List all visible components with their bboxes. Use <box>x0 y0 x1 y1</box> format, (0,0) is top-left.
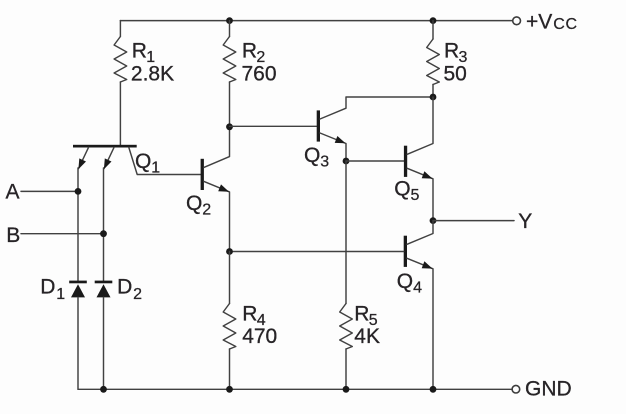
label A <box>6 181 20 204</box>
node R4-GND <box>226 386 233 393</box>
resistor R3 <box>427 21 440 97</box>
wire input B <box>21 233 104 235</box>
svg-text:B: B <box>6 224 20 247</box>
label Q4 <box>397 270 422 297</box>
node Y <box>430 217 437 224</box>
transistor Q5 <box>404 97 433 221</box>
resistor R5 <box>340 161 353 389</box>
wire GND rail <box>78 388 511 390</box>
node Q4-GND <box>430 386 437 393</box>
svg-text:2.8K: 2.8K <box>131 62 174 85</box>
wire Q4 base from Q2 emitter <box>230 251 404 253</box>
svg-text:470: 470 <box>242 325 277 348</box>
label Q1 <box>135 150 160 177</box>
node Q2 emitter / Q4 base <box>226 248 233 255</box>
svg-text:Q: Q <box>135 150 151 173</box>
label Y <box>518 210 532 233</box>
svg-text:D: D <box>117 276 132 299</box>
svg-text:Q: Q <box>397 270 413 293</box>
svg-text:Y: Y <box>518 210 532 233</box>
svg-text:A: A <box>6 181 20 204</box>
resistor R4 <box>223 252 236 390</box>
label GND <box>525 377 572 400</box>
wire output Y <box>433 220 514 222</box>
resistor R1 <box>114 21 127 145</box>
svg-text:760: 760 <box>242 62 277 85</box>
node Q5 base <box>343 158 350 165</box>
label D2 <box>117 276 142 304</box>
label B <box>6 224 20 247</box>
node B <box>100 230 107 237</box>
wire VCC top rail <box>120 20 512 22</box>
wire emitter-1 column <box>77 168 79 281</box>
svg-text:4K: 4K <box>354 325 380 348</box>
label +VCC <box>526 10 578 33</box>
svg-text:2: 2 <box>133 286 142 303</box>
label D1 <box>40 276 65 304</box>
node D2-GND <box>100 386 107 393</box>
svg-text:R: R <box>242 39 257 62</box>
node Q2 collector <box>226 123 233 130</box>
svg-text:50: 50 <box>444 63 467 86</box>
svg-text:D: D <box>40 276 55 299</box>
label R4 470 <box>242 303 277 348</box>
diode D2 <box>95 281 113 390</box>
svg-text:3: 3 <box>320 154 329 171</box>
svg-text:CC: CC <box>553 16 577 33</box>
svg-text:4: 4 <box>413 280 422 297</box>
svg-text:1: 1 <box>56 286 65 303</box>
label Q3 <box>304 144 329 171</box>
label R1 2.8K <box>131 39 174 85</box>
svg-text:R: R <box>242 303 257 326</box>
transistor Q2 <box>201 127 230 252</box>
label Q5 <box>394 178 419 205</box>
svg-text:5: 5 <box>411 187 420 204</box>
svg-text:Q: Q <box>394 178 410 201</box>
label R3 50 <box>444 40 468 86</box>
node R3 bottom <box>430 94 437 101</box>
svg-text:Q: Q <box>186 192 202 215</box>
node R2-VCC <box>226 17 233 24</box>
transistor Q1 (multi-emitter input) <box>73 145 201 175</box>
node R3-VCC <box>430 17 437 24</box>
svg-text:+V: +V <box>526 10 552 33</box>
svg-text:GND: GND <box>525 377 572 400</box>
transistor Q4 <box>404 221 433 390</box>
wire Q2 collector to Q3 base <box>230 125 317 127</box>
svg-text:R: R <box>444 40 459 63</box>
transistor Q3 <box>317 97 433 161</box>
node R5-GND <box>343 386 350 393</box>
wire emitter-2 column <box>103 168 105 281</box>
label R5 4K <box>354 303 380 348</box>
svg-text:1: 1 <box>151 160 160 177</box>
label Q2 <box>186 192 211 219</box>
svg-text:2: 2 <box>202 202 211 219</box>
resistor R2 <box>223 21 236 127</box>
wire Q5 base <box>346 160 404 162</box>
diode D1 <box>69 281 87 390</box>
GND terminal <box>512 385 520 393</box>
svg-text:Q: Q <box>304 144 320 167</box>
VCC terminal <box>513 17 521 25</box>
wire input A <box>21 190 78 192</box>
svg-text:R: R <box>132 39 147 62</box>
node A <box>75 188 82 195</box>
label R2 760 <box>242 39 277 85</box>
svg-text:R: R <box>354 303 369 326</box>
